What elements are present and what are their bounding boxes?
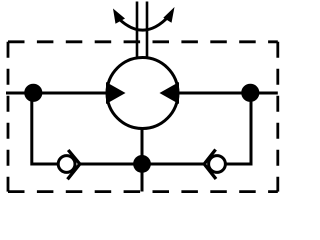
- enclosure dashed box left side: [7, 42, 10, 192]
- motor left inward triangle: [106, 82, 126, 104]
- wire right drop with elbow: [226, 93, 251, 164]
- wire left port A to motor: [6, 92, 108, 95]
- node B (right junction): [241, 84, 259, 102]
- wire node C to right valve: [142, 163, 206, 166]
- check valve CV2 seat: [204, 150, 216, 180]
- enclosure dashed box bottom side: [8, 190, 278, 193]
- wire right port B to motor: [178, 92, 278, 95]
- wire left valve to node C: [78, 163, 142, 166]
- node A (left junction): [24, 84, 42, 102]
- wire motor case drain to node C: [141, 128, 144, 158]
- check valve CV1 ball: [58, 156, 75, 173]
- wire node C to bottom border: [141, 164, 144, 192]
- enclosure dashed box top side: [8, 40, 278, 43]
- shaft double line: [136, 2, 139, 58]
- rotation arrow right head: [163, 7, 174, 23]
- node C (bottom center junction): [133, 155, 151, 173]
- motor right inward triangle: [160, 82, 180, 104]
- motor M1 circle: [107, 58, 178, 129]
- rotation arrow arc: [117, 17, 169, 31]
- wire left drop with elbow: [32, 93, 58, 164]
- check valve CV2 ball: [209, 156, 226, 173]
- check valve CV1 seat: [68, 150, 80, 179]
- enclosure dashed box right side: [276, 42, 279, 192]
- rotation arrow left head: [113, 9, 125, 24]
